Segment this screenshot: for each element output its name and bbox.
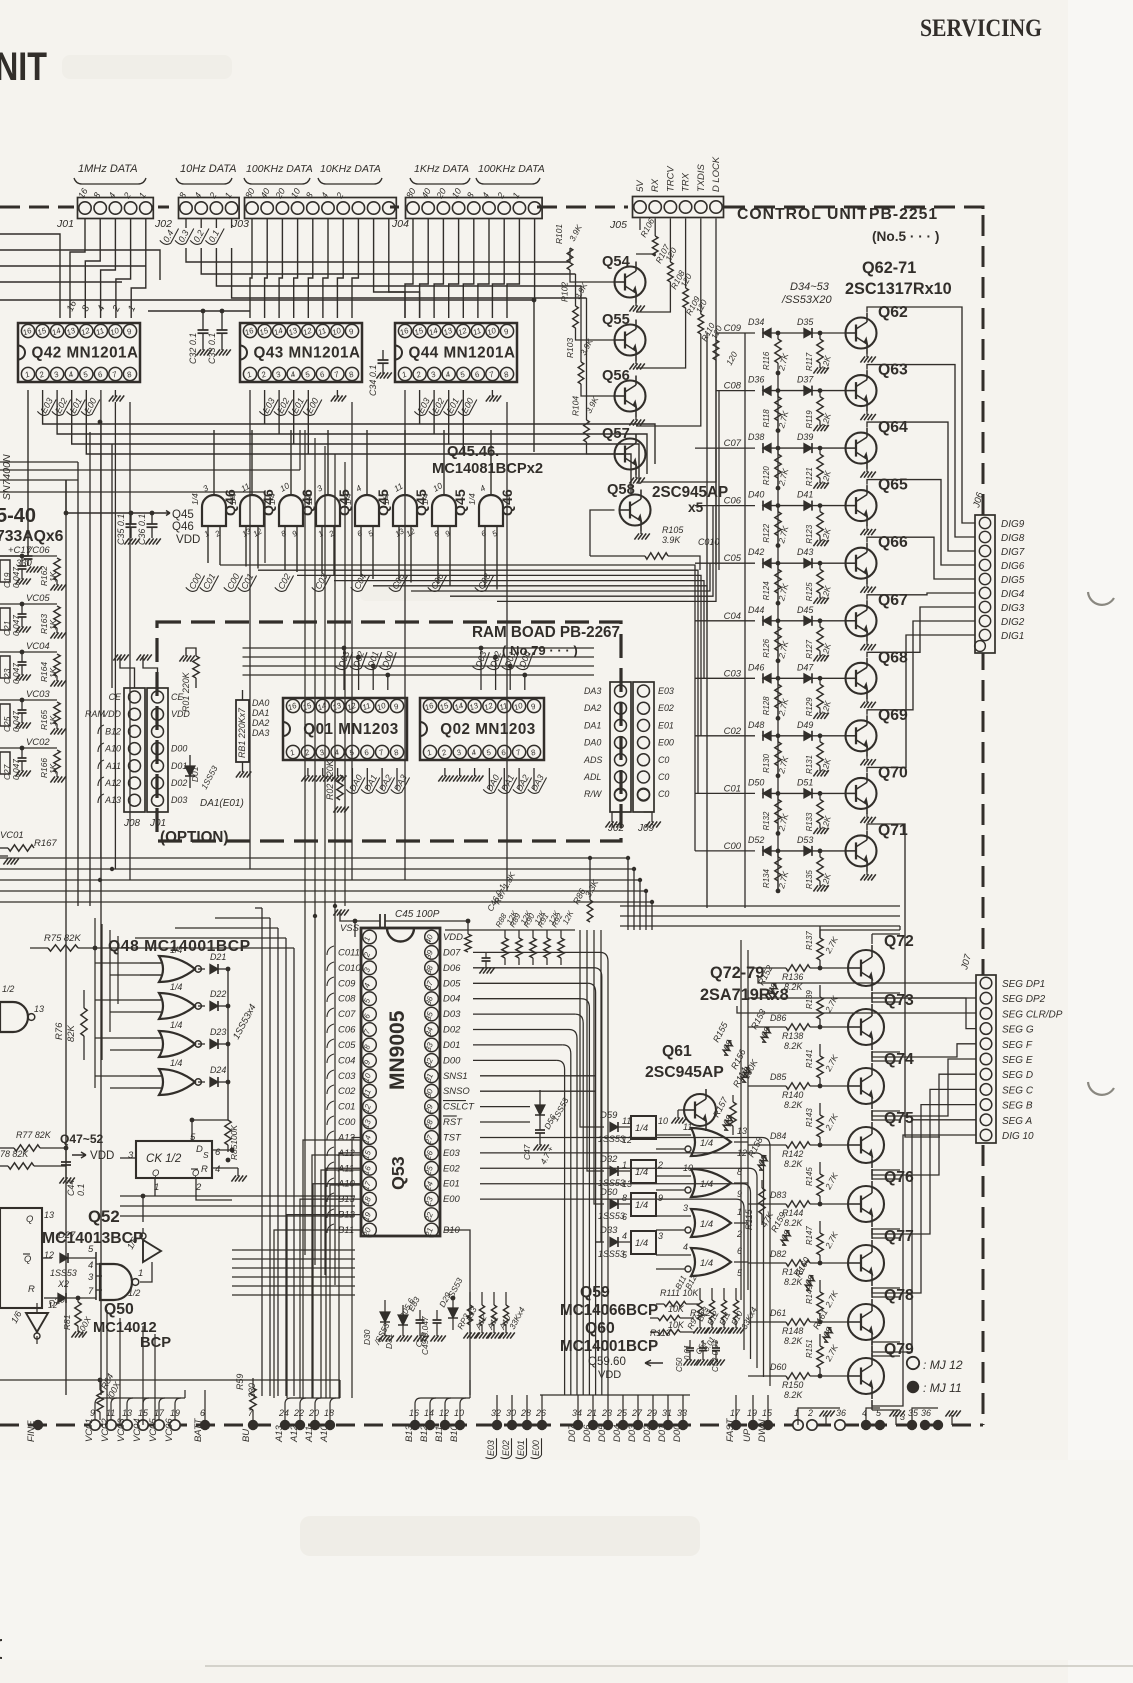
- svg-text:78 82K: 78 82K: [0, 1149, 29, 1159]
- diode D35: [804, 329, 812, 338]
- svg-text:Q79: Q79: [884, 1341, 914, 1358]
- flags D03-D00 above Q01: [335, 648, 352, 671]
- svg-text:R120: R120: [762, 466, 771, 485]
- transistor Q54: [615, 267, 646, 298]
- svg-text:6: 6: [318, 369, 326, 379]
- svg-text:R124: R124: [762, 581, 771, 600]
- wire bundle Q53-left to bottom dots: [303, 1140, 361, 1398]
- svg-text:VC03: VC03: [116, 1418, 127, 1442]
- transistor Q56: [615, 381, 646, 412]
- resistor network R97 B13 33Kx4: [697, 1300, 702, 1320]
- resistor R59 330: [250, 1388, 256, 1410]
- resistor R116 2.7K: [777, 333, 779, 339]
- svg-text:2SC945AP: 2SC945AP: [645, 1064, 724, 1081]
- svg-text:E01: E01: [658, 720, 674, 730]
- capacitor C35 0.1: [130, 513, 132, 524]
- wire Q62-71 collectors to J06: [867, 307, 975, 523]
- wire D24 to vertical: [218, 1081, 228, 1083]
- svg-text:D30: D30: [362, 1329, 372, 1345]
- svg-text:2.7K: 2.7K: [822, 935, 840, 956]
- svg-text:VC02: VC02: [26, 737, 50, 748]
- svg-text:VDD: VDD: [443, 932, 463, 943]
- transistor Q79: [848, 1358, 884, 1394]
- svg-text:C34 0.1: C34 0.1: [368, 365, 378, 396]
- svg-text:E03: E03: [486, 1440, 496, 1456]
- svg-text:20: 20: [434, 186, 448, 200]
- OR gate 1/4 unit 1: [691, 1128, 731, 1156]
- node dots on bus under RAM board: [626, 856, 630, 860]
- svg-text:10K: 10K: [668, 1304, 685, 1314]
- svg-text:1K: 1K: [48, 667, 58, 678]
- svg-text:7: 7: [88, 1286, 94, 1297]
- svg-text:D59: D59: [600, 1110, 618, 1121]
- svg-text:8: 8: [393, 747, 401, 757]
- svg-text:34: 34: [572, 1408, 582, 1418]
- diode D29 1SS53: [452, 1298, 454, 1308]
- svg-text:1K: 1K: [48, 763, 58, 774]
- connector J02: [179, 198, 240, 219]
- svg-text:13: 13: [34, 1004, 44, 1014]
- svg-text:5: 5: [82, 369, 90, 379]
- svg-text:C02: C02: [338, 1086, 356, 1097]
- AND gate Q46 #2: [240, 495, 264, 526]
- wire Q76 emitter collector: [871, 1170, 873, 1180]
- wire RAM data bus horizontals: [243, 647, 595, 649]
- partial NAND left edge: [0, 1002, 28, 1032]
- svg-text:MC14012: MC14012: [93, 1320, 157, 1336]
- svg-text:R102: R102: [560, 282, 570, 302]
- inverter 1/6 upper: [143, 1240, 161, 1262]
- wire quarter box feed verticals: [580, 930, 596, 1127]
- svg-text:VDD: VDD: [102, 709, 121, 719]
- transistor Q58: [620, 495, 651, 526]
- svg-text:R112: R112: [690, 1308, 711, 1318]
- svg-text:36: 36: [921, 1408, 931, 1418]
- quarter box 3: [631, 1193, 656, 1216]
- svg-text:S: S: [203, 1150, 209, 1160]
- svg-text:SERVICING: SERVICING: [920, 15, 1042, 42]
- resistor R81 100K: [75, 1302, 81, 1326]
- wire Q46 #2 output up: [251, 430, 253, 495]
- wire base feed Q74: [748, 1085, 786, 1087]
- svg-text:D86: D86: [770, 1013, 786, 1023]
- svg-text:Q52: Q52: [88, 1207, 120, 1226]
- svg-text:Q45: Q45: [172, 509, 194, 521]
- svg-text:MC14066BCP: MC14066BCP: [560, 1302, 658, 1319]
- svg-text:D00: D00: [672, 1424, 683, 1442]
- transistor Q63: [846, 375, 877, 406]
- capacitor C23 0.047: [21, 652, 23, 662]
- svg-text:R: R: [201, 1164, 208, 1175]
- svg-text:RST: RST: [443, 1117, 463, 1128]
- svg-text:E03: E03: [443, 1148, 461, 1159]
- svg-text:26: 26: [535, 1408, 546, 1418]
- svg-text:R104: R104: [571, 396, 581, 416]
- diode D37: [804, 386, 812, 395]
- svg-text:DA0: DA0: [252, 698, 269, 708]
- svg-text:R167: R167: [34, 838, 57, 849]
- wire diode to junction D48: [763, 735, 846, 737]
- svg-text:DWN: DWN: [757, 1419, 768, 1442]
- svg-text:1/4: 1/4: [170, 982, 182, 992]
- diode D49: [804, 731, 812, 740]
- svg-text:D44: D44: [748, 605, 764, 615]
- svg-text:3: 3: [88, 1272, 94, 1283]
- Q48 gate 1 input wires: [140, 962, 161, 964]
- svg-text:SNSO: SNSO: [443, 1086, 470, 1097]
- svg-text:MC14001BCP: MC14001BCP: [560, 1338, 658, 1355]
- svg-text:2.7K: 2.7K: [822, 1053, 840, 1074]
- svg-text:4: 4: [478, 483, 487, 494]
- wire base feed Q72: [748, 967, 786, 969]
- ground above J08: [120, 656, 135, 688]
- ground Q42 pin7: [114, 390, 116, 397]
- svg-text:8: 8: [530, 747, 538, 757]
- svg-text:D: D: [196, 1144, 203, 1155]
- svg-text:VC05: VC05: [148, 1418, 159, 1442]
- svg-text:10: 10: [658, 1116, 668, 1126]
- svg-text:12K: 12K: [819, 872, 833, 889]
- svg-text:13: 13: [622, 1179, 632, 1189]
- svg-text:RAM: RAM: [85, 709, 105, 719]
- resistor R02 220K: [337, 775, 343, 800]
- control unit boundary dashed bottom: [0, 1424, 983, 1427]
- diode D52: [763, 846, 771, 855]
- ground Q62 emitter: [866, 353, 868, 357]
- capacitor C49 0.047: [436, 1310, 438, 1320]
- svg-text:C0: C0: [658, 772, 669, 782]
- svg-text:Q57: Q57: [602, 426, 630, 442]
- connector J08: [124, 688, 145, 812]
- connector J01: [78, 198, 154, 219]
- NOR gate Q48 unit 4: [159, 1069, 195, 1095]
- svg-text:4: 4: [444, 369, 452, 379]
- svg-text:733AQx6: 733AQx6: [0, 528, 64, 545]
- capacitor C48 0.047: [419, 1310, 421, 1320]
- transistor Q76: [848, 1186, 884, 1222]
- svg-text:9: 9: [530, 701, 538, 711]
- svg-text:1MHz DATA: 1MHz DATA: [78, 163, 138, 175]
- partial flip-flop left edge: [0, 1208, 42, 1308]
- wire gate inputs to C-bus: [207, 552, 209, 563]
- svg-text:DIG5: DIG5: [1001, 575, 1025, 586]
- svg-text:7: 7: [378, 747, 386, 757]
- svg-text:3.9K: 3.9K: [662, 535, 681, 545]
- wire mid horizontals y900 region: [620, 905, 900, 907]
- wire bottom distribution horizontals: [0, 1379, 340, 1381]
- svg-text:D34~53: D34~53: [790, 281, 830, 293]
- wire Q45 row verticals down mid: [304, 430, 306, 906]
- capacitor C25 0.047: [21, 700, 23, 710]
- left edge stub VC05: [0, 608, 10, 630]
- svg-text:DIG4: DIG4: [1001, 589, 1025, 600]
- svg-text:8.2K: 8.2K: [784, 1218, 803, 1228]
- svg-text:Q75: Q75: [884, 1110, 914, 1127]
- svg-text:1/4: 1/4: [170, 945, 182, 955]
- control unit boundary dashed top: [0, 206, 74, 209]
- transistor Q78: [848, 1304, 884, 1340]
- svg-text:100K: 100K: [741, 1057, 760, 1081]
- svg-text:D27: D27: [58, 1230, 76, 1241]
- OR gate 1 wires: [656, 1134, 691, 1136]
- svg-text:A10: A10: [319, 1424, 330, 1443]
- resistor R86 3.3K: [589, 858, 591, 900]
- svg-text:Q: Q: [24, 1254, 32, 1265]
- page margin light strips: [1068, 0, 1133, 1683]
- svg-text:1: 1: [24, 370, 31, 380]
- svg-text:Q78: Q78: [884, 1287, 914, 1304]
- svg-text:R125: R125: [805, 582, 814, 601]
- svg-text:5: 5: [876, 1408, 881, 1418]
- wire Q42 pins down long: [0, 390, 28, 556]
- svg-text:12: 12: [622, 1135, 632, 1145]
- svg-text:3: 3: [315, 483, 324, 494]
- resistor R139 2.7K vertical: [819, 1019, 821, 1027]
- resistor R142 8.2K horizontal: [786, 1142, 810, 1148]
- resistor R163 1K: [54, 606, 60, 628]
- svg-text:C08: C08: [338, 994, 356, 1005]
- wire base feed Q76: [748, 1203, 786, 1205]
- Q48 gate 4 input wires: [140, 1075, 161, 1077]
- svg-text:SEG F: SEG F: [1002, 1040, 1033, 1051]
- resistor R114 100K: [732, 1095, 734, 1102]
- svg-text:D45: D45: [797, 605, 813, 615]
- svg-text:D00: D00: [171, 744, 187, 754]
- svg-text:D LOCK: D LOCK: [711, 156, 722, 192]
- transistor Q62: [846, 318, 877, 349]
- diode D45: [804, 616, 812, 625]
- svg-text:FINE: FINE: [26, 1420, 37, 1442]
- AND gate input flags C0x: [185, 570, 204, 593]
- svg-text:2.7K: 2.7K: [822, 1230, 840, 1251]
- svg-text:SEG G: SEG G: [1002, 1025, 1034, 1036]
- quarter box 1: [631, 1116, 656, 1139]
- svg-text:B12: B12: [105, 726, 121, 736]
- svg-text:5: 5: [491, 528, 500, 538]
- resistor R126 2.7K: [777, 621, 779, 627]
- wire Q71 collector to DIG10 route: [867, 824, 940, 1137]
- resistor bank R88-R92 12K: [504, 930, 506, 938]
- svg-text:R: R: [28, 1284, 35, 1295]
- svg-text:DIG8: DIG8: [1001, 533, 1025, 544]
- resistor R120 2.7K: [777, 448, 779, 454]
- diode D59 1SS53: [596, 1126, 604, 1128]
- quarter box 2: [631, 1160, 656, 1183]
- svg-text:8: 8: [465, 191, 476, 200]
- svg-text:13: 13: [241, 526, 254, 538]
- diode D42: [763, 559, 771, 568]
- diode D21: [198, 968, 205, 970]
- svg-text:1SS53: 1SS53: [550, 1096, 571, 1123]
- OR gate 4 wires: [656, 1254, 691, 1256]
- svg-text:6: 6: [363, 747, 371, 757]
- svg-text:15: 15: [301, 701, 313, 713]
- svg-text:82K: 82K: [66, 1025, 77, 1042]
- svg-text:0.047: 0.047: [11, 759, 21, 780]
- bottom pins A13-A10: [280, 1420, 290, 1430]
- svg-text:D01: D01: [190, 767, 200, 782]
- svg-text:R75 82K: R75 82K: [44, 933, 81, 944]
- svg-text:VC04: VC04: [132, 1418, 143, 1442]
- svg-text:1/4: 1/4: [170, 1058, 182, 1068]
- bottom pin BU: [248, 1420, 258, 1430]
- svg-text:R145: R145: [805, 1167, 814, 1186]
- OR gate 3 wires: [656, 1215, 691, 1217]
- wire Q72 base extra verticals: [740, 940, 742, 1300]
- svg-text:R150: R150: [782, 1380, 803, 1390]
- svg-text:Q77: Q77: [884, 1228, 914, 1245]
- ground Q44 pin7: [491, 390, 493, 397]
- svg-text:C06: C06: [338, 1025, 356, 1036]
- svg-text:R121: R121: [805, 467, 814, 486]
- wire Q45 #5 inputs down: [360, 526, 362, 552]
- svg-text:28: 28: [520, 1408, 531, 1418]
- svg-text:D48: D48: [748, 720, 764, 730]
- ground bottom 3: [951, 1415, 953, 1425]
- svg-text:7: 7: [333, 369, 341, 379]
- grounds below Q01 pins: [307, 768, 309, 776]
- ground Q66 emitter: [866, 583, 868, 587]
- svg-text:32: 32: [491, 1408, 501, 1418]
- resistor R167: [8, 845, 34, 851]
- wire mid horizontals y1200: [120, 1195, 355, 1197]
- flip-flop pin wires: [191, 1120, 193, 1141]
- svg-text:R81: R81: [62, 1315, 72, 1330]
- wire mid verticals to Q53 low: [304, 906, 306, 1255]
- resistor R146 8.2K horizontal: [786, 1260, 810, 1266]
- transistor Q73: [848, 1009, 884, 1045]
- wire Q46 #2 inputs down: [245, 526, 247, 552]
- svg-text:R116: R116: [762, 351, 771, 370]
- ground bottom 1: [825, 1415, 827, 1425]
- svg-text:R117: R117: [805, 352, 814, 371]
- svg-text:R106: R106: [638, 216, 656, 239]
- capacitors C50 C51 C52 0.01: [689, 1340, 691, 1348]
- wire Q46 #8 inputs down: [484, 526, 486, 552]
- svg-text:0.1: 0.1: [207, 228, 222, 244]
- resistor R124 2.7K: [777, 563, 779, 569]
- svg-text:UP: UP: [742, 1428, 753, 1442]
- svg-text:3: 3: [455, 747, 463, 757]
- bottom pins right group open: [793, 1420, 803, 1430]
- wire VC02 rail: [0, 747, 57, 749]
- svg-text:12K: 12K: [819, 527, 833, 544]
- svg-text:2: 2: [334, 191, 346, 201]
- ground above J01 ram: [143, 656, 158, 688]
- svg-text:D83: D83: [770, 1190, 786, 1200]
- wire C08 stub: [716, 390, 755, 392]
- resistor R144 8.2K horizontal: [786, 1201, 810, 1207]
- svg-text:MC14081BCPx2: MC14081BCPx2: [432, 461, 543, 477]
- svg-text:1: 1: [137, 191, 148, 200]
- svg-text:1: 1: [289, 748, 296, 758]
- wire C-bus upper verticals: [715, 333, 717, 565]
- svg-text:5: 5: [190, 1132, 196, 1143]
- svg-text:Q46: Q46: [500, 489, 516, 516]
- svg-text:5: 5: [485, 747, 493, 757]
- svg-text:R142: R142: [782, 1149, 803, 1159]
- svg-text:12K: 12K: [819, 469, 833, 486]
- svg-text:1: 1: [203, 529, 211, 539]
- node junction upper: [98, 420, 103, 425]
- svg-text:13: 13: [44, 1210, 54, 1220]
- svg-text:19: 19: [747, 1408, 757, 1418]
- transistor Q55: [615, 325, 646, 356]
- svg-text:9: 9: [444, 528, 453, 538]
- svg-text:3: 3: [275, 369, 283, 379]
- svg-text:J07: J07: [959, 953, 974, 972]
- grounds below Q02 pins: [444, 768, 446, 776]
- connector J07: [976, 975, 996, 1143]
- label Q45 Q46 VDD arrow: [160, 511, 170, 516]
- wire Q45 #6 inputs down: [398, 526, 400, 552]
- resistor R162 1K: [54, 558, 60, 580]
- svg-text:5-40: 5-40: [0, 505, 36, 527]
- NOR gate Q48 unit 1: [159, 956, 195, 982]
- svg-text:D51: D51: [797, 777, 813, 787]
- svg-text:D42: D42: [748, 547, 764, 557]
- wire diode to junction D50: [763, 792, 846, 794]
- wire cap top rail Q42-Q43: [148, 310, 250, 312]
- bottom pins B13-B10: [410, 1420, 420, 1430]
- resistor R115 47K: [761, 1180, 763, 1188]
- resistor R150 8.2K horizontal: [786, 1373, 810, 1379]
- resistor R121 12K: [818, 446, 823, 451]
- resistor R130 2.7K: [777, 736, 779, 742]
- svg-text:R127: R127: [805, 639, 814, 658]
- svg-text:R133: R133: [805, 812, 814, 831]
- svg-text:1SS53x4: 1SS53x4: [231, 1002, 259, 1041]
- svg-text:R118: R118: [762, 409, 771, 428]
- svg-text:4: 4: [88, 1260, 93, 1271]
- svg-text:FAST: FAST: [725, 1417, 736, 1442]
- svg-text:R135: R135: [805, 870, 814, 889]
- svg-text:1K: 1K: [48, 619, 58, 630]
- svg-text:0.4: 0.4: [161, 228, 176, 244]
- quarter box 4: [631, 1231, 656, 1254]
- svg-text:15: 15: [438, 701, 450, 713]
- NAND gate Q50: [100, 1264, 132, 1300]
- svg-text:5V: 5V: [635, 179, 646, 192]
- resistor R131 12K: [818, 733, 823, 738]
- svg-text:Q44 MN1201A: Q44 MN1201A: [408, 345, 515, 362]
- svg-text:TXDIS: TXDIS: [696, 164, 707, 192]
- svg-text:E03: E03: [658, 686, 674, 696]
- svg-text:8: 8: [622, 1193, 627, 1203]
- svg-text:6: 6: [480, 528, 489, 538]
- diode D23: [198, 1043, 205, 1045]
- svg-text:4: 4: [215, 1164, 220, 1175]
- svg-text:5: 5: [348, 747, 356, 757]
- svg-text:J03: J03: [231, 218, 249, 230]
- svg-text:D43: D43: [797, 547, 813, 557]
- wire Q73 emitter collector: [871, 993, 873, 1003]
- legend filled circle MJ11: [907, 1381, 919, 1393]
- ground Q61: [678, 1109, 684, 1111]
- ground Q65 emitter: [866, 526, 868, 530]
- wire left horizontals extra: [0, 469, 300, 471]
- svg-text:4: 4: [95, 304, 107, 313]
- svg-text:2: 2: [495, 191, 507, 201]
- svg-text:R105: R105: [662, 525, 683, 535]
- svg-text:D49: D49: [797, 720, 813, 730]
- bottom pin FINE: [33, 1420, 43, 1430]
- wire C09 stub: [716, 332, 755, 334]
- resistor R164 1K: [54, 654, 60, 676]
- svg-text:BU: BU: [241, 1429, 252, 1442]
- J02 pin stubs with labels: [185, 219, 187, 228]
- svg-text:0.047: 0.047: [11, 615, 21, 636]
